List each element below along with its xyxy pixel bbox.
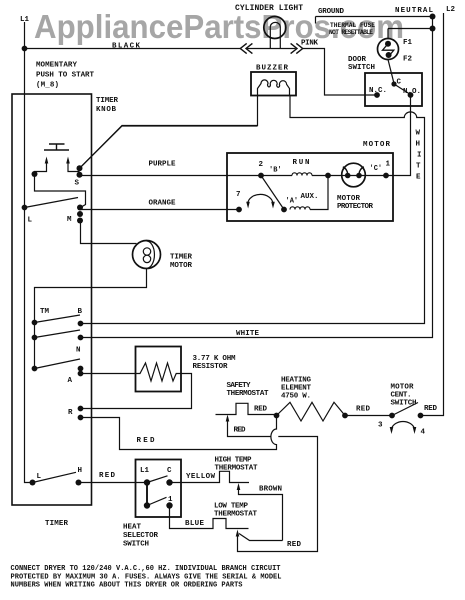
svg-text:MOTOR: MOTOR xyxy=(391,384,414,392)
svg-text:(M_8): (M_8) xyxy=(36,82,59,90)
wire push-to-start to timer M xyxy=(35,174,86,208)
motor protector U2 xyxy=(342,163,366,187)
inductor RUN winding xyxy=(292,173,312,176)
svg-text:PINK: PINK xyxy=(301,40,318,48)
svg-text:GROUND: GROUND xyxy=(318,8,344,16)
wire safety arrow run to low temp arrow xyxy=(238,437,318,552)
protector contact left xyxy=(345,173,351,179)
arrowhead high temp thermostat xyxy=(237,483,241,490)
motor terminal 7 xyxy=(236,207,242,213)
timer terminal M dots xyxy=(77,205,83,211)
low temp thermostat diagonal arrow tail xyxy=(239,534,283,541)
svg-text:H: H xyxy=(78,467,83,475)
timer terminal B xyxy=(78,321,84,327)
svg-text:'A': 'A' xyxy=(286,198,299,206)
svg-text:N.C.: N.C. xyxy=(369,87,387,95)
svg-text:PURPLE: PURPLE xyxy=(149,161,176,169)
push-to-start right contact arrow xyxy=(68,163,80,172)
svg-text:CONNECT DRYER TO 120/240 V.A.C: CONNECT DRYER TO 120/240 V.A.C.,60 HZ. I… xyxy=(11,565,281,573)
wire AUX to main run junction xyxy=(310,176,328,210)
motor terminal C xyxy=(383,173,389,179)
wire timer M down to timer motor xyxy=(81,221,137,244)
connector chevrons left (cylinder light plug) xyxy=(240,43,252,53)
arrowhead motor arc left xyxy=(246,202,250,209)
svg-text:RED: RED xyxy=(137,437,155,445)
door switch terminal N.O. xyxy=(408,92,414,98)
svg-text:L: L xyxy=(28,217,33,225)
safety thermostat sense arrow xyxy=(228,421,272,437)
svg-text:TIMER: TIMER xyxy=(170,254,192,262)
svg-text:CENT.: CENT. xyxy=(391,392,412,400)
svg-text:RED: RED xyxy=(254,406,267,414)
svg-text:'B': 'B' xyxy=(269,167,282,175)
svg-text:KNOB: KNOB xyxy=(96,106,116,114)
junction motor run-aux xyxy=(325,173,331,179)
buzzer coil xyxy=(258,80,290,96)
arrow arc motor centrifugal 7-A xyxy=(248,194,273,203)
svg-text:1: 1 xyxy=(386,161,391,169)
buzzer box xyxy=(251,72,296,96)
svg-text:E: E xyxy=(416,174,421,182)
svg-text:RED: RED xyxy=(99,472,115,480)
svg-text:RED: RED xyxy=(356,406,370,414)
timer switch blade TM to B xyxy=(35,315,81,323)
svg-text:HEAT: HEAT xyxy=(123,524,141,532)
timer terminal H xyxy=(76,480,82,486)
door switch box xyxy=(365,73,422,106)
svg-text:F1: F1 xyxy=(403,39,413,47)
arrowhead low temp thermostat xyxy=(236,530,240,537)
timer terminal A dots xyxy=(78,366,84,372)
timer motor TM xyxy=(133,241,161,269)
arrowhead motor arc right xyxy=(271,202,275,209)
svg-text:W: W xyxy=(416,130,421,138)
svg-text:7: 7 xyxy=(236,191,241,199)
arrowhead centrifugal arc right xyxy=(413,427,417,434)
wire under cylinder light xyxy=(246,48,296,50)
wire neutral rail down to timer N xyxy=(81,17,433,338)
wire RED timer H to heat selector L1 xyxy=(79,482,148,484)
motor switch blade 2 to A xyxy=(261,176,284,210)
fuse terminal F1 xyxy=(385,41,391,47)
wire L1 rail down timer to L-H switch xyxy=(25,49,33,483)
heat selector lower left terminal xyxy=(144,502,150,508)
wire timer S diagonal to buzzer junction xyxy=(80,126,258,168)
svg-text:F2: F2 xyxy=(403,56,413,64)
heat selector terminal C xyxy=(166,479,172,485)
wire heater to centrifugal switch 3 xyxy=(345,415,392,417)
push-to-start left contact arrow xyxy=(35,163,47,175)
high temp thermostat sense arrow run BROWN xyxy=(239,490,283,541)
timer terminal S lower xyxy=(77,172,83,178)
svg-text:TM: TM xyxy=(40,308,50,316)
svg-text:HEATING: HEATING xyxy=(281,377,311,385)
svg-text:3: 3 xyxy=(378,422,383,430)
svg-text:L: L xyxy=(37,473,42,481)
wire PINK top run down to door switch N.C. xyxy=(303,49,377,96)
heat selector terminal 1 xyxy=(166,502,172,508)
svg-text:THERMOSTAT: THERMOSTAT xyxy=(227,390,269,398)
svg-text:WHITE: WHITE xyxy=(236,330,259,338)
svg-text:NUMBERS WHEN WRITING ABOUT THI: NUMBERS WHEN WRITING ABOUT THIS DRYER OR… xyxy=(11,582,243,590)
svg-text:CYLINDER LIGHT: CYLINDER LIGHT xyxy=(235,4,303,13)
wire fuse F2 to door switch C xyxy=(388,60,394,84)
svg-text:2: 2 xyxy=(259,161,264,169)
wire TM rail xyxy=(34,323,36,369)
svg-text:RED: RED xyxy=(287,541,301,549)
svg-text:BUZZER: BUZZER xyxy=(256,65,288,73)
push-to-start button actuator xyxy=(44,144,69,150)
connector chevrons right (cylinder light plug) xyxy=(291,43,303,53)
centrifugal switch terminal 4 xyxy=(418,413,424,419)
motor terminal 2 xyxy=(258,173,264,179)
svg-text:PUSH TO START: PUSH TO START xyxy=(36,72,94,80)
svg-text:DOOR: DOOR xyxy=(348,56,367,64)
svg-text:S: S xyxy=(75,180,80,188)
fuse F1-F2 thermal fuse xyxy=(387,29,389,39)
fuse terminal F2 xyxy=(386,52,392,58)
timer terminal L low xyxy=(30,480,36,486)
wire timer motor return to TM rail xyxy=(35,269,147,323)
svg-text:4750 W.: 4750 W. xyxy=(281,393,311,401)
svg-text:NEUTRAL: NEUTRAL xyxy=(395,7,433,15)
svg-text:SWITCH: SWITCH xyxy=(391,400,417,408)
timer TM rail dots xyxy=(32,320,38,326)
timer terminal S upper xyxy=(77,165,83,171)
svg-text:I: I xyxy=(417,152,422,160)
protector contact right xyxy=(356,173,362,179)
svg-text:MOTOR: MOTOR xyxy=(170,262,192,270)
svg-text:N: N xyxy=(76,347,81,355)
timer switch blade L to M xyxy=(25,198,79,208)
heating element 4750W xyxy=(277,402,346,421)
svg-text:M: M xyxy=(67,216,72,224)
arrowhead push-start right xyxy=(66,157,70,164)
svg-text:C: C xyxy=(167,467,172,475)
timer terminal L xyxy=(22,205,28,211)
svg-text:RED: RED xyxy=(234,427,246,435)
centrifugal switch terminal 3 xyxy=(389,413,395,419)
svg-text:ORANGE: ORANGE xyxy=(149,200,176,208)
wire motor main run line xyxy=(261,175,386,177)
svg-text:PROTECTED BY MAXIMUM 30 A. FUS: PROTECTED BY MAXIMUM 30 A. FUSES. ALWAYS… xyxy=(11,573,282,581)
svg-text:RED: RED xyxy=(424,405,437,413)
wire L2 rail down to centrifugal switch 4 xyxy=(421,13,444,416)
svg-text:L1: L1 xyxy=(20,16,30,24)
wire PURPLE timer S to motor 2 xyxy=(80,175,262,177)
arrowhead centrifugal arc left xyxy=(390,427,394,434)
svg-text:L1: L1 xyxy=(140,467,150,475)
junction L1-black xyxy=(22,46,28,52)
svg-text:'C': 'C' xyxy=(370,165,383,173)
junction safety-heater xyxy=(274,413,280,419)
svg-text:B: B xyxy=(78,308,83,316)
wire ORANGE timer M to motor 7 xyxy=(81,209,240,211)
wire BLACK L1 to left connector xyxy=(25,48,241,50)
wire buzzer left lead to timer S xyxy=(80,96,258,169)
wire BLUE selector 1 to low temp thermostat xyxy=(170,506,249,529)
motor terminal A xyxy=(281,207,287,213)
svg-text:N.O.: N.O. xyxy=(403,88,421,96)
timer switch blade TM to N xyxy=(35,330,81,338)
inductor AUX winding xyxy=(290,207,310,210)
svg-text:SAFETY: SAFETY xyxy=(227,382,251,390)
arrowhead safety thermostat xyxy=(226,415,230,422)
wire YELLOW selector C to high temp thermostat xyxy=(170,471,250,482)
svg-text:H: H xyxy=(416,141,421,149)
svg-text:RESISTOR: RESISTOR xyxy=(193,363,228,371)
junction ground-neutral top xyxy=(430,14,436,20)
svg-text:THERMOSTAT: THERMOSTAT xyxy=(215,465,258,473)
heat selector switch box xyxy=(136,460,182,518)
cylinder light leads xyxy=(270,27,280,49)
svg-text:YELLOW: YELLOW xyxy=(186,473,215,481)
svg-text:BROWN: BROWN xyxy=(259,486,282,494)
svg-text:RUN: RUN xyxy=(293,159,310,167)
svg-text:SELECTOR: SELECTOR xyxy=(123,532,158,540)
arrowhead push-start left xyxy=(45,157,49,164)
svg-text:TIMER: TIMER xyxy=(45,520,68,528)
timer terminal R dots xyxy=(78,406,84,412)
motor box xyxy=(227,153,393,221)
wire door switch N.O. down to motor C xyxy=(386,95,411,176)
cylinder light bulb xyxy=(264,17,286,39)
centrifugal switch blade xyxy=(392,403,418,416)
svg-text:MOMENTARY: MOMENTARY xyxy=(36,62,77,70)
svg-text:LOW TEMP: LOW TEMP xyxy=(214,503,248,511)
timer switch blade TM to A xyxy=(35,359,81,369)
svg-text:SWITCH: SWITCH xyxy=(123,541,149,549)
arrow arc centrifugal switch 3-4 xyxy=(392,421,415,428)
door switch terminal C xyxy=(391,81,396,86)
heat selector blade to 1 xyxy=(147,497,167,505)
svg-text:HIGH TEMP: HIGH TEMP xyxy=(215,457,252,465)
svg-text:MOTOR: MOTOR xyxy=(337,195,360,203)
svg-text:PROTECTOR: PROTECTOR xyxy=(337,203,373,211)
junction push-start left xyxy=(32,171,38,177)
wire NEUTRAL bus xyxy=(388,28,433,30)
svg-text:TIMER: TIMER xyxy=(96,97,118,105)
svg-text:MOTOR: MOTOR xyxy=(363,141,390,149)
svg-text:THERMOSTAT: THERMOSTAT xyxy=(214,511,257,519)
svg-text:AUX.: AUX. xyxy=(301,193,319,201)
wire buzzer right lead, hop over N.O. wire, WHITE rail down to timer B xyxy=(81,96,425,324)
svg-text:ELEMENT: ELEMENT xyxy=(281,385,311,393)
wire RED timer R to heater junction with hop xyxy=(81,416,277,450)
svg-text:1: 1 xyxy=(168,496,173,504)
svg-text:SWITCH: SWITCH xyxy=(348,64,375,72)
heat selector common bar xyxy=(146,483,148,506)
svg-text:R: R xyxy=(68,409,73,417)
junction neutral bus xyxy=(430,26,436,32)
heat selector blade L1 to C xyxy=(147,476,168,483)
wire timer A to resistor xyxy=(81,373,136,375)
timer box xyxy=(12,94,92,505)
svg-text:C: C xyxy=(397,79,402,87)
junction heater right xyxy=(342,413,348,419)
heat selector terminal L1 xyxy=(144,479,150,485)
door switch terminal N.C. xyxy=(374,92,380,98)
thermostat SAFETY xyxy=(216,403,277,414)
svg-text:3.77 K OHM: 3.77 K OHM xyxy=(193,355,236,363)
svg-text:A: A xyxy=(68,377,73,385)
wire L-H timer blade xyxy=(33,472,77,482)
svg-text:L2: L2 xyxy=(446,6,456,14)
timer terminal N xyxy=(78,335,84,341)
wire resistor to timer R xyxy=(81,374,192,409)
resistor 3.77K element xyxy=(136,363,182,381)
svg-text:BLACK: BLACK xyxy=(112,43,140,51)
svg-text:BLUE: BLUE xyxy=(185,520,204,528)
svg-text:NOT RESETTABLE: NOT RESETTABLE xyxy=(329,29,373,36)
door switch blade C to N.O. xyxy=(394,84,411,95)
svg-text:4: 4 xyxy=(421,429,426,437)
svg-text:T: T xyxy=(416,163,421,171)
wire GROUND bus xyxy=(316,17,433,24)
resistor box xyxy=(136,347,182,392)
node L1 lead-in xyxy=(24,22,26,49)
